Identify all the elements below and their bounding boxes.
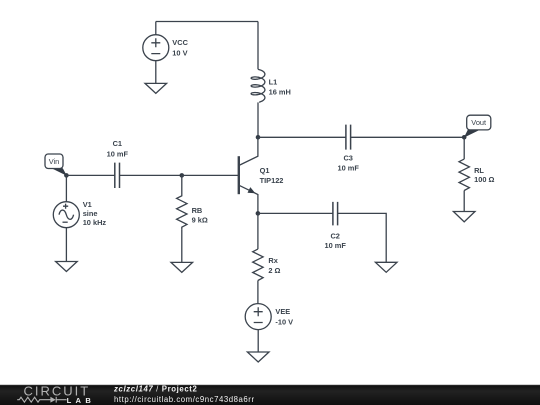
wire C2 to corner and down to ground bbox=[338, 213, 387, 262]
svg-text:10 mF: 10 mF bbox=[107, 150, 129, 159]
ground RB bbox=[171, 262, 193, 272]
svg-text:2 Ω: 2 Ω bbox=[268, 266, 280, 275]
footer bar bbox=[0, 384, 540, 405]
voltage source VCC bbox=[143, 35, 169, 61]
svg-text:100 Ω: 100 Ω bbox=[474, 175, 494, 184]
label C1 value bbox=[107, 139, 129, 159]
label V1 value bbox=[83, 200, 107, 227]
wire C3 to Vout node bbox=[351, 136, 465, 138]
node flag Vin bbox=[45, 154, 67, 176]
label Rx value bbox=[268, 256, 280, 275]
label RB value bbox=[192, 206, 208, 224]
capacitor C3 bbox=[346, 125, 351, 150]
wire Rx to VEE bbox=[257, 281, 259, 304]
node collector junction dot bbox=[256, 135, 261, 140]
svg-text:V1: V1 bbox=[83, 200, 92, 209]
voltage source V1 sine bbox=[53, 202, 79, 228]
label VCC value bbox=[172, 38, 188, 57]
node Vin junction dot bbox=[64, 173, 69, 178]
svg-text:VEE: VEE bbox=[275, 307, 290, 316]
node flag Vout bbox=[464, 115, 491, 137]
wire RB to ground bbox=[181, 229, 183, 262]
label C3 value bbox=[338, 154, 360, 173]
svg-text:Rx: Rx bbox=[268, 256, 278, 265]
wire RB junction to Q1 base bbox=[182, 174, 239, 176]
inductor L1 bbox=[251, 69, 265, 102]
wire emitter to C2 bbox=[258, 212, 333, 214]
wire VCC bottom lead bbox=[155, 61, 157, 84]
node emitter junction dot bbox=[256, 211, 261, 216]
resistor Rx bbox=[253, 249, 263, 280]
svg-text:16 mH: 16 mH bbox=[269, 88, 291, 97]
svg-text:Vin: Vin bbox=[49, 157, 60, 166]
svg-text:L1: L1 bbox=[269, 78, 278, 87]
footer text project bbox=[113, 384, 255, 404]
wire C1 to RB junction bbox=[120, 174, 182, 176]
wire RL to ground bbox=[463, 191, 465, 212]
label L1 value bbox=[269, 78, 291, 97]
capacitor C2 bbox=[333, 202, 338, 226]
ground C2 bbox=[375, 262, 397, 272]
label Vin text bbox=[49, 157, 60, 166]
node RB junction dot bbox=[180, 173, 185, 178]
wire Vout node to RL bbox=[463, 137, 465, 159]
svg-text:zclzcl147 / Project2: zclzcl147 / Project2 bbox=[113, 384, 198, 393]
label Vout text bbox=[471, 118, 486, 127]
wire collector net to C3 bbox=[258, 136, 346, 138]
resistor RB bbox=[177, 175, 187, 229]
label RL value bbox=[474, 166, 494, 184]
svg-text:-10 V: -10 V bbox=[275, 318, 293, 327]
capacitor C1 bbox=[115, 163, 120, 188]
svg-text:Q1: Q1 bbox=[260, 166, 270, 175]
wire Vin node to V1 bbox=[65, 175, 67, 201]
svg-text:http://circuitlab.com/c9nc743d: http://circuitlab.com/c9nc743d8a6rr bbox=[114, 395, 255, 404]
transistor Q1 bbox=[239, 137, 258, 213]
svg-text:C1: C1 bbox=[113, 139, 122, 148]
svg-text:VCC: VCC bbox=[172, 38, 188, 47]
svg-text:C2: C2 bbox=[330, 232, 339, 241]
svg-text:10 mF: 10 mF bbox=[325, 241, 347, 250]
wire L1 top lead bbox=[257, 22, 259, 70]
svg-text:C3: C3 bbox=[343, 154, 352, 163]
wire V1 to ground bbox=[65, 228, 67, 262]
wire VCC top vertical bbox=[155, 22, 157, 35]
node Vout junction dot bbox=[462, 135, 467, 140]
svg-text:10 mF: 10 mF bbox=[338, 164, 360, 173]
wire VEE to ground bbox=[257, 330, 259, 352]
wire emitter to Rx bbox=[257, 213, 259, 249]
svg-text:TIP122: TIP122 bbox=[260, 176, 284, 185]
wire top horizontal VCC to L1 bbox=[156, 21, 258, 23]
ground RL bbox=[453, 212, 475, 222]
voltage source VEE bbox=[245, 304, 271, 330]
ground VEE bbox=[247, 352, 269, 362]
wire Vin to C1 bbox=[66, 174, 114, 176]
ground V1 bbox=[56, 262, 78, 272]
svg-text:RB: RB bbox=[192, 206, 203, 215]
svg-text:Vout: Vout bbox=[471, 118, 486, 127]
ground VCC bbox=[145, 83, 167, 93]
svg-text:10 kHz: 10 kHz bbox=[83, 218, 107, 227]
wire L1 bottom lead bbox=[257, 102, 259, 137]
logo CIRCUIT LAB bbox=[17, 384, 95, 405]
svg-text:RL: RL bbox=[474, 166, 484, 175]
label C2 value bbox=[325, 232, 347, 251]
resistor RL bbox=[459, 159, 469, 190]
svg-text:sine: sine bbox=[83, 209, 98, 218]
svg-text:10 V: 10 V bbox=[172, 48, 187, 57]
svg-text:9 kΩ: 9 kΩ bbox=[192, 215, 208, 224]
label Q1 value bbox=[260, 166, 284, 185]
svg-text:LAB: LAB bbox=[67, 396, 96, 405]
label VEE value bbox=[275, 307, 293, 327]
